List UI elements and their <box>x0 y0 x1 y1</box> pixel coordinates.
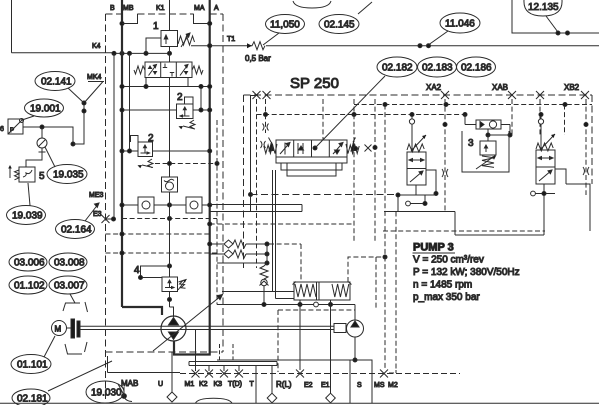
node MAB <box>122 394 127 399</box>
dashed MS M2 boundary <box>385 105 396 374</box>
wire y110 right <box>193 109 210 111</box>
svg-text:SP 250: SP 250 <box>290 75 339 92</box>
control valve 4 spring <box>178 279 187 290</box>
actuator spring left <box>295 284 316 297</box>
svg-text:2: 2 <box>177 92 183 103</box>
callout 03.006 <box>9 253 47 271</box>
wire pilot x250 <box>251 96 257 212</box>
svg-text:03.006: 03.006 <box>14 258 45 269</box>
compensator XA2 spring <box>407 135 426 152</box>
wire valve1 left pilot <box>146 38 161 53</box>
node y244 A <box>208 242 212 246</box>
callout 01.101 <box>11 355 51 374</box>
relief valve 1 adjust arrow <box>181 33 190 47</box>
directional valve 4/3 body <box>145 62 192 78</box>
svg-text:XB2: XB2 <box>564 83 580 92</box>
aux pump circle <box>347 320 364 337</box>
svg-text:02.145: 02.145 <box>324 20 355 31</box>
node valve4 pilot <box>139 276 143 280</box>
actuator piston box <box>294 282 350 300</box>
reducing valve 2 lower arrow <box>141 145 150 154</box>
node y205 K1 <box>168 203 172 207</box>
leader 02.181 <box>48 361 112 391</box>
node y151 A <box>208 149 212 153</box>
port E2 cross <box>296 370 304 378</box>
wire aux pump down <box>354 337 356 360</box>
motor M circle <box>52 321 67 336</box>
pump variable arrow <box>153 295 223 352</box>
node shuttle down <box>486 133 490 137</box>
svg-text:19.001: 19.001 <box>30 104 61 115</box>
reducing valve 2 upper spring <box>183 120 195 129</box>
wire dashed y253 <box>106 252 218 254</box>
node y257 x385 <box>383 255 387 259</box>
directional valve left spring <box>134 66 145 74</box>
callout 02.181 <box>12 389 50 405</box>
aux coupling box <box>334 324 346 333</box>
wire T1 line <box>210 45 599 47</box>
prop valve cell arrows <box>280 143 290 155</box>
port cross XB2 <box>581 91 589 99</box>
wire shuttle down <box>487 129 489 135</box>
callout top partial <box>293 1 331 8</box>
svg-text:MA: MA <box>194 5 205 12</box>
node XA2 top <box>410 113 414 117</box>
wire x330 drain down <box>330 305 332 404</box>
callout 03.007 <box>49 276 87 294</box>
wire XB2 right <box>555 169 590 231</box>
svg-text:K1: K1 <box>156 5 165 12</box>
node x84 y103 <box>82 101 86 105</box>
node y360 <box>353 358 357 362</box>
wire drain row y263 <box>217 262 267 264</box>
drain diamond RL <box>267 393 277 403</box>
wire pilot y135 <box>488 134 510 136</box>
wire x129 vertical <box>129 53 131 151</box>
node K4-B <box>120 51 124 55</box>
reducing valve 2 upper body <box>177 104 194 119</box>
svg-text:3: 3 <box>468 138 474 149</box>
svg-text:p_max 350 bar: p_max 350 bar <box>413 292 480 303</box>
svg-text:T(D): T(D) <box>228 381 242 388</box>
reducing valve 2 upper arrow <box>180 107 190 117</box>
dashed enclosure bottom <box>106 351 224 353</box>
air bleed valve 5 body <box>19 167 35 182</box>
bracket top <box>63 302 88 312</box>
check valve spring vertical <box>260 266 268 279</box>
reducing valve 2 lower body <box>138 142 153 157</box>
dashed pilot x354 <box>353 99 355 243</box>
wire x201 link <box>200 87 202 111</box>
spring y244 <box>233 240 246 248</box>
node x73 y144 <box>71 142 75 146</box>
pilot relief 3 arrow <box>484 145 487 152</box>
shaft motor stub <box>67 327 72 329</box>
node T1 disconnect b <box>427 44 431 48</box>
dashed pilot x445 <box>444 99 446 212</box>
pressure switch contact <box>20 119 24 123</box>
node XA2 drain <box>423 202 427 206</box>
orifice x586 <box>583 167 589 175</box>
callout 02.141 <box>35 72 75 91</box>
svg-text:03.008: 03.008 <box>54 258 85 269</box>
actuator spring right <box>332 284 349 297</box>
wire drain y204 to SP <box>210 204 302 206</box>
dashed pilot actuator right <box>348 257 385 310</box>
prop valve base plate <box>276 157 347 163</box>
node K4 x129 <box>128 51 132 55</box>
svg-text:T: T <box>250 381 255 388</box>
breather circle y304 <box>314 302 319 307</box>
wire pressure gallery y86 <box>122 86 210 88</box>
node y151 x129 <box>128 149 132 153</box>
directional valve right spring <box>192 66 203 74</box>
svg-text:6: 6 <box>0 126 4 133</box>
outer dashed enclosure pump assembly <box>106 14 224 403</box>
callout 19.030 <box>86 381 124 403</box>
node y114 x465 <box>463 113 467 117</box>
node x217 pilot <box>215 162 219 166</box>
drain diamond x330 <box>326 393 336 403</box>
node top-right a <box>556 31 560 35</box>
dashed drain y194 <box>251 194 399 196</box>
svg-text:E3: E3 <box>93 211 102 218</box>
dashed pilot x375 <box>374 99 376 243</box>
manifold stubs <box>196 366 240 372</box>
wire MAB hook <box>124 387 132 402</box>
frame bottom border <box>0 402 599 404</box>
node y110 B <box>120 108 124 112</box>
node y218 K1 <box>168 217 172 221</box>
dashed pilots K3 TD <box>220 344 234 362</box>
wire to MK4 <box>73 82 103 145</box>
wire valve4 pilot left <box>141 266 170 278</box>
check valve ball <box>261 279 267 285</box>
gauge isolator circle <box>37 138 47 148</box>
wire K1 top <box>169 0 171 31</box>
spring 0,5 Bar <box>248 42 265 50</box>
proportional valve body <box>276 140 347 157</box>
node y151 B <box>120 149 124 153</box>
pump triangle up <box>169 318 179 326</box>
pilot relief 3 body <box>480 141 496 155</box>
wire MK4 stub <box>88 81 104 83</box>
node K4-E3 branch <box>112 51 116 55</box>
tank dome <box>196 398 233 403</box>
leader 19.001 <box>22 116 34 120</box>
callout 02.186 <box>457 57 496 77</box>
node y263 right <box>265 261 269 265</box>
callout 19.035 <box>47 165 87 184</box>
node y224 A <box>208 222 212 226</box>
wire switch line <box>23 127 73 144</box>
node prop right pilot <box>354 147 358 151</box>
compensator XA2 body <box>407 152 426 185</box>
wire K4 horizontal <box>12 52 170 55</box>
svg-text:R(L): R(L) <box>276 380 292 389</box>
frame top-left <box>11 0 13 53</box>
node pilot x250 y194 <box>249 193 253 197</box>
wire x300 down to E2 <box>299 305 301 371</box>
wire MB port notch <box>122 14 138 24</box>
svg-text:n = 1485 rpm: n = 1485 rpm <box>413 280 472 291</box>
prop valve right spring <box>346 144 359 154</box>
wire actuator drops <box>300 300 331 305</box>
dashed pilot x323 <box>322 99 324 140</box>
svg-text:ME3: ME3 <box>89 192 104 199</box>
port cross XAB <box>508 91 516 99</box>
node K4-K1 <box>168 51 172 55</box>
node K4 pilot valve1 <box>144 51 148 55</box>
wire check valve down <box>263 286 265 305</box>
wire A line (thick) <box>209 0 211 345</box>
node y304 x300 <box>298 303 302 307</box>
node y304 x330 <box>329 303 333 307</box>
svg-text:1: 1 <box>153 21 159 32</box>
node K1 y266 <box>168 264 172 268</box>
port cross XA2 <box>441 91 449 99</box>
compensator XA2 top cell arrows <box>409 159 424 162</box>
node XA2 bottom left <box>396 193 400 197</box>
svg-text:12.135: 12.135 <box>528 2 559 13</box>
plug cross prop right <box>365 145 372 152</box>
svg-text:01.102: 01.102 <box>14 281 45 292</box>
leader 12.135 <box>546 16 558 32</box>
prop valve left spring <box>264 144 277 154</box>
svg-text:02.164: 02.164 <box>61 225 92 236</box>
pump main circle <box>161 316 186 341</box>
svg-text:02.141: 02.141 <box>41 77 72 88</box>
wire T down <box>255 366 257 404</box>
svg-text:03.007: 03.007 <box>54 281 85 292</box>
leader 01.101 <box>44 336 55 357</box>
callout 03.008 <box>49 253 87 271</box>
coupling bar a <box>71 319 75 338</box>
dashed pilot x265 with arrow <box>265 99 267 133</box>
wire RL down <box>271 366 273 404</box>
compensator XB2 body <box>536 150 555 184</box>
svg-text:MAB: MAB <box>121 379 138 388</box>
callout 19.039 <box>7 206 46 225</box>
shuttle valve seat <box>480 122 484 128</box>
SP box right dashed <box>591 95 593 184</box>
control valve 4 arrow <box>165 280 174 289</box>
shuttle valve ball <box>489 121 496 128</box>
check valve K1 poppet <box>166 182 174 190</box>
port cross SP a <box>253 91 261 99</box>
node A top <box>208 22 212 26</box>
wire shuttle right <box>501 125 510 136</box>
port cross SP b <box>263 91 271 99</box>
prop valve nested U <box>281 163 342 176</box>
wire MA port notch <box>194 14 210 24</box>
svg-text:XAB: XAB <box>492 83 508 92</box>
node x586 <box>584 123 588 127</box>
gauge circle XB2 <box>538 119 543 124</box>
callout 02.183 <box>418 57 457 77</box>
svg-text:T1: T1 <box>227 36 235 43</box>
wire y110 left <box>122 109 177 111</box>
spring y254 <box>233 250 246 258</box>
wire M1 <box>195 329 197 371</box>
dashed pilot x564 <box>564 105 566 136</box>
coupling bar b <box>77 321 80 337</box>
relief valve 1 arrow <box>164 35 168 44</box>
port E3 cross <box>102 215 110 223</box>
wire XA2 top <box>411 115 413 153</box>
SP box top dashed <box>244 94 593 96</box>
inner dashed line x217 <box>216 120 218 305</box>
wire B to pump (thick) <box>122 307 162 315</box>
callout 11,050 <box>266 15 305 34</box>
wire E3 port <box>106 218 115 220</box>
dashed drain box below actuator <box>278 310 355 372</box>
leader 19.039 <box>28 183 30 206</box>
node prop right x375 <box>373 146 377 150</box>
svg-text:K4: K4 <box>92 43 101 50</box>
svg-text:11,050: 11,050 <box>270 20 300 31</box>
air bleed valve 5 spring <box>10 166 19 180</box>
filter right element <box>190 201 198 209</box>
actuator corner ticks <box>293 282 352 285</box>
svg-text:02.182: 02.182 <box>382 63 413 74</box>
relief valve 1 body <box>161 31 178 47</box>
port M1 cross <box>192 370 200 378</box>
leader 11,050 <box>263 33 279 45</box>
port cross x540 <box>536 91 544 99</box>
svg-text:K3: K3 <box>214 381 223 388</box>
reducing valve 2 lower spring <box>142 159 153 168</box>
node y114 x354 <box>352 113 356 117</box>
wire shuttle left <box>465 115 476 125</box>
node y114 x265 <box>264 113 268 117</box>
pilot relief 3 enclosure <box>462 131 509 172</box>
svg-text:2: 2 <box>148 133 154 144</box>
wire valve3 top <box>487 135 489 141</box>
wire y205 <box>122 204 210 206</box>
control valve 4 body <box>162 277 178 292</box>
prop valve right solenoid arrow <box>351 138 356 152</box>
svg-text:MS: MS <box>374 382 385 389</box>
aux pump triangle <box>351 321 359 327</box>
wire pilot dashed to x217 <box>155 163 217 165</box>
SP box left dashed <box>243 95 245 268</box>
check valve K1 body <box>162 177 178 192</box>
filter right body <box>186 197 202 213</box>
leader 02.164 <box>85 203 99 221</box>
wire drain row y254 <box>210 253 267 255</box>
port MS cross <box>380 370 388 378</box>
svg-text:M1: M1 <box>185 381 195 388</box>
orifice diamond y244 <box>224 240 233 248</box>
svg-text:MK4: MK4 <box>87 74 102 81</box>
svg-text:0,5 Bar: 0,5 Bar <box>245 54 271 63</box>
svg-text:5: 5 <box>39 171 45 182</box>
node y110 A <box>208 108 212 112</box>
filter left element <box>142 201 150 209</box>
wire E3 vertical <box>113 53 115 219</box>
port K3 cross <box>220 370 228 378</box>
node y244 right <box>265 242 269 246</box>
node T1 disconnect a <box>418 44 422 48</box>
wire valve1 to T1 <box>191 45 210 47</box>
gauge isolator stem <box>39 127 46 152</box>
shuttle valve body <box>476 120 501 129</box>
node x445 y124 <box>443 123 447 127</box>
reducing valve 2 upper pilot hat <box>185 97 194 104</box>
svg-text:MB: MB <box>123 5 134 12</box>
breather XB2 <box>531 191 536 196</box>
wire control pair vertical <box>273 170 276 299</box>
compensator XA2 bottom cell arrow <box>410 171 423 182</box>
wire gauge to valve5 <box>26 152 42 167</box>
node y104 x385 <box>383 103 387 107</box>
node K1 y299 <box>168 298 172 302</box>
svg-text:B: B <box>110 5 115 12</box>
breather XA2 <box>406 201 411 206</box>
node y104 x565 <box>563 103 567 107</box>
orifice prop left <box>261 141 266 148</box>
leader 03.007 <box>70 294 75 303</box>
leader 19.035 <box>45 147 55 167</box>
wire A to pump suction (thick U) <box>174 341 210 355</box>
wire valve4 to pump <box>170 292 174 318</box>
node y304 check <box>262 303 266 307</box>
leader 19.030 <box>118 384 124 395</box>
node gallery B <box>120 85 124 89</box>
node switch gauge <box>40 125 44 129</box>
wire XB2 top <box>540 115 542 151</box>
node K1 pilot y163 <box>168 162 172 166</box>
wire XB2 bottom <box>455 184 555 235</box>
svg-text:E2: E2 <box>304 382 313 389</box>
aux pump feed <box>354 305 356 321</box>
svg-text:02.181: 02.181 <box>17 394 48 405</box>
drain diamond U <box>167 392 177 402</box>
svg-text:19.035: 19.035 <box>53 170 84 181</box>
dashed pilot x512 <box>511 99 513 135</box>
wire top-right riser <box>512 0 599 33</box>
dashed pilot x540 <box>539 99 541 137</box>
directional valve right cell arrow <box>180 65 188 76</box>
dashed rail y114 <box>257 114 466 116</box>
wire S port <box>349 360 351 403</box>
orifice x445 <box>442 169 448 177</box>
wire y151 left <box>122 150 138 152</box>
wire bottom long solid <box>108 356 181 373</box>
svg-text:S: S <box>357 382 362 389</box>
orifice diamond y254 <box>224 250 233 258</box>
wire case drain y304 <box>217 304 355 306</box>
dashed rail y104 <box>354 104 592 106</box>
callout 19.001 <box>25 99 64 117</box>
node top-right b <box>566 31 570 35</box>
svg-text:U: U <box>158 381 163 388</box>
dashed pilot into actuator left <box>269 244 301 282</box>
wire link y244-y263 <box>264 244 267 266</box>
node E3 <box>112 217 116 221</box>
shaft double line <box>80 326 334 329</box>
port TD cross <box>235 370 243 378</box>
callout 12.135 <box>524 0 562 16</box>
wire drain y211 <box>210 205 455 212</box>
wire control to swash <box>222 292 294 299</box>
wire B line (thick) <box>121 0 123 307</box>
svg-text:P: P <box>10 128 14 134</box>
wire y360 to S <box>217 360 372 403</box>
callout 02.182 <box>377 57 417 77</box>
svg-text:A: A <box>214 5 219 12</box>
